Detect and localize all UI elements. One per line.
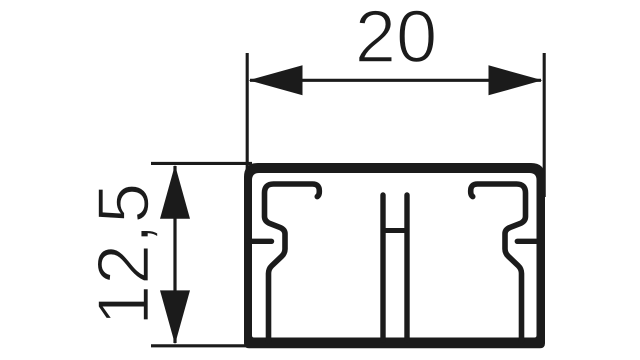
divider left blade xyxy=(380,195,385,340)
height dimension line xyxy=(173,166,176,343)
width dim right arrowhead xyxy=(489,65,543,95)
left wall ledge tick xyxy=(249,239,272,244)
divider crossbar xyxy=(383,228,407,233)
svg-text:20: 20 xyxy=(355,0,438,78)
left cover clip xyxy=(265,184,320,341)
right cover clip xyxy=(471,184,526,341)
height dim down arrowhead xyxy=(160,290,190,344)
extension line right of width dim xyxy=(543,53,546,197)
width dim left arrowhead xyxy=(249,65,303,95)
divider right blade xyxy=(404,195,409,340)
extension line top of height dim xyxy=(151,162,252,165)
extension line bottom of height dim xyxy=(151,344,252,347)
right wall ledge tick xyxy=(517,239,540,244)
width dimension line xyxy=(250,79,541,82)
trunking outer shell xyxy=(244,163,545,348)
svg-text:12,5: 12,5 xyxy=(82,183,165,326)
height dim up arrowhead xyxy=(160,165,190,219)
extension line left of width dim xyxy=(246,53,249,210)
